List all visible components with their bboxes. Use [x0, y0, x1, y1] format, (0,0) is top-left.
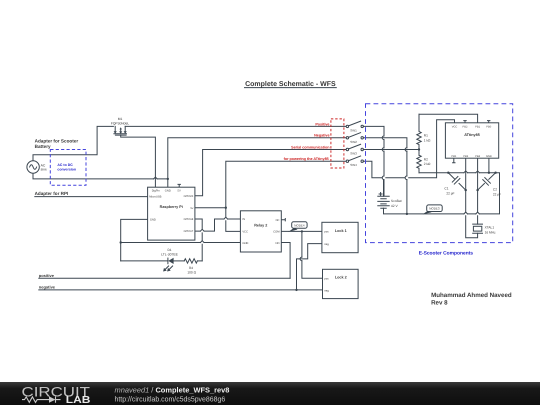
node junction dot 5v/VCC/power — [225, 207, 227, 209]
svg-text:SW1: SW1 — [350, 128, 357, 132]
svg-text:PB0: PB0 — [486, 125, 491, 128]
box Lock 1 — [322, 222, 358, 252]
wire relay NO down to positive rail — [281, 243, 290, 279]
svg-text:Negative: Negative — [314, 134, 329, 138]
crystal XTAL1 — [473, 224, 483, 233]
svg-text:NC: NC — [276, 219, 280, 222]
svg-text:SW2: SW2 — [350, 140, 357, 144]
wire AC bottom return rail — [33, 173, 168, 179]
wire ground row R2 bottom — [384, 173, 500, 214]
wire GPIO18 down to R4 — [195, 219, 202, 261]
resistor R2 — [417, 155, 421, 173]
svg-text:PB5: PB5 — [451, 155, 456, 158]
svg-text:neg: neg — [324, 289, 329, 292]
wire AC top lead — [33, 126, 113, 160]
svg-text:http://circuitlab.com/c5ds5pve: http://circuitlab.com/c5ds5pve868g6 — [115, 397, 226, 404]
svg-text:NODE4: NODE4 — [294, 223, 305, 227]
svg-text:100 Ω: 100 Ω — [187, 271, 196, 275]
box red dashed — [331, 119, 344, 168]
svg-text:C1: C1 — [444, 186, 448, 190]
wire relay COM to Lock1 pos — [281, 230, 322, 232]
svg-text:1 kΩ: 1 kΩ — [424, 138, 431, 142]
box Raspberry Pi — [148, 187, 195, 240]
box AC to DC conversion — [50, 150, 86, 186]
resistor R1 — [417, 114, 421, 155]
svg-text:Adapter for Scooter: Adapter for Scooter — [35, 138, 79, 143]
svg-text:Adapter for RPI: Adapter for RPI — [35, 191, 69, 196]
wire GND row to relay GND — [121, 242, 241, 244]
svg-text:SW3: SW3 — [350, 152, 357, 156]
svg-text:XTAL1: XTAL1 — [485, 226, 495, 230]
wire ATtiny power row to SW4 and down to relay VCC — [226, 161, 346, 231]
svg-text:conversion: conversion — [57, 167, 76, 171]
svg-text:ATtiny85: ATtiny85 — [464, 133, 480, 137]
wire R4 to GPIO18 vertical — [197, 260, 202, 262]
svg-text:NODE3: NODE3 — [429, 207, 440, 211]
svg-text:FQP30N06L: FQP30N06L — [111, 121, 129, 125]
wire SW1 out to battery plus — [363, 126, 384, 196]
capacitor C1 — [448, 173, 465, 190]
svg-text:R2: R2 — [424, 157, 428, 161]
wire SW2 out to NODE3 row — [363, 138, 407, 214]
capacitor C2 — [478, 173, 496, 190]
title underline — [245, 87, 337, 89]
switch SW3 — [346, 148, 348, 150]
svg-text:GPIO17: GPIO17 — [184, 230, 194, 233]
svg-text:R4: R4 — [189, 266, 193, 270]
wire positive rail M1 to SW1 — [125, 125, 346, 127]
wire ATtiny PB4 to crystal top — [477, 158, 479, 224]
wire hop IN row over x=225.8 — [224, 217, 228, 219]
svg-text:positive: positive — [39, 273, 55, 278]
switch SW2 — [346, 137, 348, 139]
ATtiny pin stubs — [453, 121, 490, 173]
svg-text:Positive: Positive — [315, 122, 329, 126]
resistor R4 — [184, 259, 197, 263]
switch SW4 — [346, 160, 348, 162]
battery ScoBat — [378, 196, 389, 208]
svg-text:Lock 1: Lock 1 — [335, 229, 347, 233]
svg-text:PB2: PB2 — [463, 125, 468, 128]
svg-text:16 MHz: 16 MHz — [485, 230, 496, 234]
node junction dot negative rail — [295, 289, 297, 291]
wire relay NC stub — [281, 219, 285, 221]
svg-text:Muhammad Ahmed Naveed: Muhammad Ahmed Naveed — [431, 292, 512, 299]
switch SW1 — [346, 125, 348, 127]
AC source V1 — [27, 161, 39, 173]
node junction dot GND rail left — [120, 241, 122, 243]
svg-text:IN: IN — [242, 218, 245, 221]
svg-text:Lock 2: Lock 2 — [335, 276, 347, 280]
svg-text:LTL-307EE: LTL-307EE — [161, 253, 178, 257]
RPi 5V stub — [178, 184, 180, 187]
svg-text:sine: sine — [41, 168, 47, 172]
wire LED to R4 — [174, 260, 185, 262]
svg-text:PB4: PB4 — [475, 155, 480, 158]
svg-text:GPIO18: GPIO18 — [184, 218, 194, 221]
box Lock 2 — [323, 269, 359, 298]
svg-text:5V: 5V — [178, 190, 181, 193]
wire NODE4 drop to Lock2 pos — [302, 231, 323, 278]
wire R1 top to PB1 — [419, 114, 478, 123]
wire negative rail — [39, 289, 323, 291]
svg-text:MicroUSB: MicroUSB — [149, 196, 161, 199]
dashed boxes — [50, 104, 512, 243]
node junction dot AC return / RPi GND — [167, 178, 169, 180]
svg-text:COM: COM — [273, 231, 280, 234]
svg-text:C2: C2 — [493, 187, 497, 191]
svg-text:2 kΩ: 2 kΩ — [424, 162, 431, 166]
svg-text:SW4: SW4 — [350, 163, 357, 167]
wire hop rail over DigPin vertical — [154, 177, 158, 179]
svg-text:Complete Schematic - WFS: Complete Schematic - WFS — [245, 80, 336, 88]
wire gate of M1 to RPi DigPin — [121, 135, 156, 187]
flag NODE3 — [423, 210, 432, 214]
svg-text:GND: GND — [242, 242, 248, 245]
svg-text:VCC: VCC — [452, 125, 458, 128]
svg-text:PB3: PB3 — [463, 155, 468, 158]
box Relay 2 — [240, 211, 281, 252]
svg-text:Raspberry Pi: Raspberry Pi — [160, 205, 183, 209]
svg-text:E-Scooter Components: E-Scooter Components — [419, 250, 474, 256]
svg-text:negative: negative — [39, 285, 56, 290]
svg-text:GND: GND — [165, 190, 171, 193]
wire RPi 5v row — [195, 207, 226, 209]
wire battery top to SW1 bus — [383, 180, 385, 197]
svg-text:neg: neg — [324, 243, 329, 246]
svg-text:R1: R1 — [424, 134, 428, 138]
wire MicroUSB adapter — [35, 196, 148, 198]
svg-text:Battery: Battery — [35, 144, 51, 149]
svg-text:42 V: 42 V — [391, 204, 399, 208]
svg-text:AC to DC: AC to DC — [57, 163, 73, 167]
footer bar — [0, 382, 540, 405]
svg-text:NO: NO — [275, 242, 279, 245]
svg-text:mnaveed1 / Complete_WFS_rev8: mnaveed1 / Complete_WFS_rev8 — [115, 386, 230, 395]
transistor Q M1 symbol — [115, 126, 125, 131]
wire SW3 out to divider — [363, 149, 419, 151]
wire negative row to SW2 and down to RPi GND — [168, 138, 346, 187]
svg-text:D1: D1 — [167, 248, 171, 252]
svg-text:22 pF: 22 pF — [446, 191, 454, 195]
svg-text:GND: GND — [486, 155, 492, 158]
svg-text:DigPin: DigPin — [152, 190, 160, 193]
svg-text:LAB: LAB — [66, 395, 91, 405]
svg-text:GPIO23: GPIO23 — [184, 195, 194, 198]
svg-text:Serial communication: Serial communication — [291, 145, 330, 149]
svg-text:Relay 2: Relay 2 — [254, 224, 267, 228]
node junction dot NODE4 — [301, 230, 303, 232]
box ATtiny85 — [445, 123, 498, 158]
flag NODE4 — [288, 228, 297, 233]
wire LED row left — [121, 260, 168, 262]
svg-text:pos: pos — [324, 277, 329, 280]
box E-Scooter Components — [366, 104, 513, 243]
svg-text:ScoBat: ScoBat — [391, 199, 402, 203]
svg-text:22 pF: 22 pF — [493, 193, 501, 197]
svg-text:Rev 8: Rev 8 — [431, 299, 448, 306]
wire RPi GND left down — [121, 219, 148, 261]
svg-text:pos: pos — [324, 230, 329, 233]
wire positive rail — [39, 277, 290, 279]
label AC to DC conversion — [57, 163, 473, 257]
svg-text:GND: GND — [150, 219, 156, 222]
wire GPIO17 to relay IN — [195, 219, 224, 231]
wire Lock1 neg to negative rail — [297, 244, 322, 290]
red labels — [284, 122, 331, 161]
svg-text:PB1: PB1 — [475, 125, 480, 128]
wire ATtiny PB3 to crystal bottom — [466, 158, 478, 238]
svg-text:for powering the ATtiny85: for powering the ATtiny85 — [284, 157, 329, 161]
logo resistor and diode — [22, 396, 61, 402]
wire SW4 out to ATtiny VCC — [363, 120, 454, 178]
diode D1 LED — [167, 258, 169, 264]
wire serial row GPIO23 to SW3 — [195, 150, 346, 196]
svg-text:VCC: VCC — [242, 231, 248, 234]
